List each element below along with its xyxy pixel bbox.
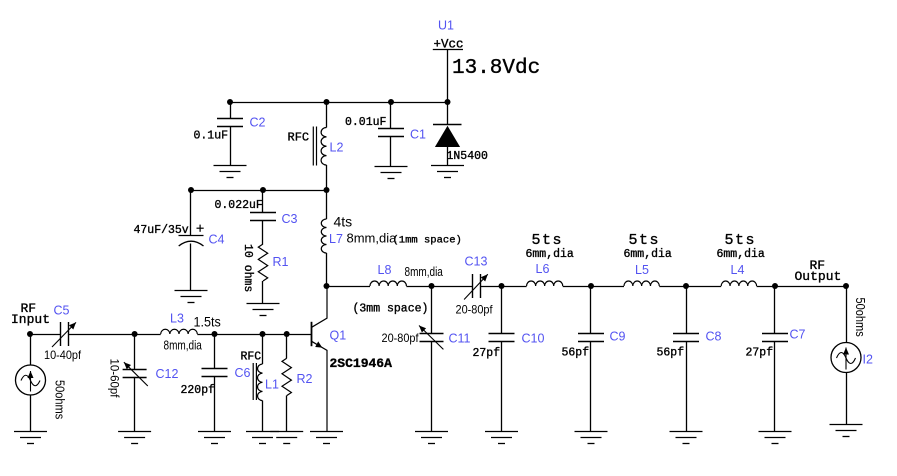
diode D1 cathode bar — [433, 124, 462, 126]
svg-text:27pf: 27pf — [746, 347, 774, 360]
svg-text:L5: L5 — [635, 263, 649, 277]
svg-text:0.1uF: 0.1uF — [194, 129, 229, 142]
svg-text:6mm,dia: 6mm,dia — [717, 248, 765, 261]
capacitor C8 — [673, 334, 699, 342]
wire L2 stub bottom — [326, 165, 328, 190]
svg-text:L1: L1 — [265, 378, 279, 392]
wire C10 stub bottom — [501, 341, 503, 432]
capacitor C4 curved plate — [179, 241, 204, 246]
wire C1 stub bottom — [390, 137, 392, 166]
wire R2 stub bottom — [286, 396, 288, 432]
svg-text:10 ohms: 10 ohms — [241, 244, 254, 292]
wire R1 stub bottom — [262, 281, 264, 304]
transistor Q1 emitter lead — [312, 341, 327, 431]
svg-text:C5: C5 — [54, 304, 70, 318]
svg-text:6mm,dia: 6mm,dia — [624, 248, 672, 261]
ground below C10 — [485, 432, 518, 444]
wire Vcc stub — [447, 49, 449, 102]
svg-text:13.8Vdc: 13.8Vdc — [452, 57, 540, 80]
ground below C7 — [759, 432, 792, 444]
wire C3 to R1 — [262, 221, 264, 244]
wire C7 stub top — [774, 286, 776, 334]
power symbol +Vcc bar — [433, 49, 463, 51]
svg-text:RFC: RFC — [288, 131, 310, 145]
svg-text:(1mm space): (1mm space) — [393, 235, 462, 247]
svg-text:C8: C8 — [706, 329, 722, 343]
source I1 sine — [21, 375, 40, 386]
wire C2 stub bottom — [230, 126, 232, 165]
junction collector rail / C9 — [588, 283, 594, 289]
svg-text:C7: C7 — [790, 328, 806, 342]
capacitor C12 arrow — [124, 362, 148, 386]
inductor L8 — [370, 281, 406, 286]
ground below C2 — [214, 166, 247, 178]
capacitor C7 — [762, 334, 788, 342]
svg-text:C2: C2 — [250, 115, 266, 129]
capacitor C5 variable — [61, 322, 69, 346]
svg-text:1N5400: 1N5400 — [447, 150, 489, 163]
ground below C9 — [575, 432, 608, 444]
wire C7 stub bottom — [774, 341, 776, 432]
wire C8 stub top — [686, 286, 688, 334]
inductor L4 — [721, 281, 756, 286]
junction decoupling rail / C4 — [188, 187, 194, 193]
svg-text:2SC1946A: 2SC1946A — [330, 356, 393, 371]
svg-text:56pf: 56pf — [562, 347, 590, 360]
wire C11 stub top — [431, 286, 433, 333]
junction top rail / C2 — [227, 99, 233, 105]
junction collector rail / C7 — [772, 283, 778, 289]
svg-text:220pf: 220pf — [181, 384, 216, 397]
junction decoupling rail / C3 — [260, 187, 266, 193]
svg-text:50ohms: 50ohms — [853, 298, 868, 337]
capacitor C10 — [489, 334, 515, 342]
ground below input source — [14, 432, 47, 444]
svg-text:6mm,dia: 6mm,dia — [526, 248, 574, 261]
svg-text:RFC: RFC — [241, 351, 262, 364]
svg-text:C1: C1 — [410, 127, 426, 141]
ground below I2 — [830, 425, 863, 437]
junction top rail / C1 — [388, 99, 394, 105]
wire C9 stub top — [590, 286, 592, 334]
capacitor C12 variable — [123, 370, 147, 378]
svg-text:50ohms: 50ohms — [52, 380, 67, 419]
wire D1 stub bottom — [447, 147, 449, 166]
wire L1 stub bottom — [262, 401, 264, 432]
source I2 circle — [831, 343, 861, 373]
junction input rail / R2 — [284, 331, 290, 337]
capacitor C11 arrow — [419, 326, 443, 350]
inductor L3 — [161, 329, 198, 334]
wire C1 stub top — [390, 102, 392, 129]
svg-text:8mm,dia: 8mm,dia — [405, 265, 444, 280]
wire decoupling rail — [191, 190, 327, 192]
ground below C11 — [415, 432, 448, 444]
junction collector rail / RF output — [843, 283, 849, 289]
ground below C6 — [198, 432, 231, 444]
ground below C4 — [175, 291, 208, 303]
capacitor C13 arrow — [464, 274, 488, 299]
wire C10 stub top — [501, 286, 503, 334]
junction collector rail / Q1 — [324, 283, 330, 289]
svg-text:C9: C9 — [610, 329, 626, 343]
svg-text:L8: L8 — [378, 263, 392, 277]
capacitor C1 — [378, 129, 404, 137]
wire L7 stub bottom — [326, 253, 328, 286]
svg-text:1.5ts: 1.5ts — [194, 314, 222, 330]
wire L3 to C6 node — [197, 334, 214, 336]
junction input rail / C12 — [132, 331, 138, 337]
wire L4 to output node — [757, 286, 846, 288]
junction collector rail / C8 — [683, 283, 689, 289]
wire input node to C5 — [30, 334, 60, 336]
svg-text:R1: R1 — [273, 255, 289, 269]
capacitor C3 — [250, 213, 276, 221]
wire C4 stub top — [190, 190, 192, 236]
wire C13 to L6 — [481, 286, 527, 288]
wire C6 stub bottom — [214, 377, 216, 432]
capacitor C2 — [217, 119, 243, 127]
svg-text:56pf: 56pf — [657, 347, 685, 360]
ground below C8 — [670, 432, 703, 444]
svg-text:5ts: 5ts — [629, 232, 661, 249]
source I1 circle — [16, 365, 46, 395]
junction input rail / L1 — [260, 331, 266, 337]
capacitor C11 variable — [420, 334, 444, 342]
junction input rail / source — [27, 331, 33, 337]
svg-text:10-40pf: 10-40pf — [44, 350, 82, 362]
capacitor C4 positive plate — [179, 235, 204, 237]
wire C2 stub top — [230, 102, 232, 119]
svg-text:L2: L2 — [330, 140, 344, 154]
wire input source stub bottom — [30, 395, 32, 432]
wire input source stub top — [30, 334, 32, 366]
svg-text:U1: U1 — [438, 19, 454, 33]
capacitor C13 variable — [473, 274, 481, 298]
svg-text:Output: Output — [795, 269, 842, 284]
diode D1 body — [435, 126, 460, 147]
resistor R1 — [258, 244, 267, 281]
inductor L1 core lines — [253, 363, 256, 400]
junction top rail / Vcc and D1 — [445, 99, 451, 105]
wire C4 stub bottom — [190, 244, 192, 291]
capacitor C5 arrow — [52, 322, 76, 347]
svg-text:8mm,dia: 8mm,dia — [347, 230, 398, 245]
junction top rail / L2 — [324, 99, 330, 105]
svg-text:Input: Input — [11, 312, 50, 327]
wire R2 stub top — [286, 334, 288, 358]
svg-text:8mm,dia: 8mm,dia — [164, 338, 203, 353]
transistor Q1 base bar — [311, 322, 313, 346]
ground below C12 — [118, 432, 151, 444]
svg-text:C6: C6 — [235, 366, 251, 380]
wire top supply rail — [230, 102, 448, 104]
svg-text:L3: L3 — [170, 312, 184, 326]
transistor Q1 collector lead — [312, 286, 327, 327]
source I1 arrow — [30, 371, 32, 392]
svg-text:C4: C4 — [209, 232, 225, 246]
junction L2 / L7 — [324, 187, 330, 193]
svg-text:I2: I2 — [863, 352, 873, 366]
svg-text:27pf: 27pf — [473, 347, 501, 360]
svg-text:0.01uF: 0.01uF — [345, 116, 387, 129]
svg-text:5ts: 5ts — [532, 232, 564, 249]
svg-text:(3mm space): (3mm space) — [353, 303, 429, 316]
wire L2 stub top — [326, 102, 328, 128]
wire L6 to L5 — [563, 286, 624, 288]
svg-text:20-80pf: 20-80pf — [382, 333, 420, 345]
svg-text:C13: C13 — [465, 255, 488, 269]
wire C12 stub top — [134, 334, 136, 369]
wire L8 to C13 — [406, 286, 472, 288]
svg-text:L7: L7 — [329, 232, 343, 246]
inductor L2 coil — [321, 128, 326, 166]
inductor L5 — [624, 281, 659, 286]
junction collector rail / C11 — [429, 283, 435, 289]
ground below C1 — [375, 167, 408, 179]
capacitor C4 plus sign — [197, 225, 204, 232]
junction collector rail / C10 — [499, 283, 505, 289]
wire C8 stub bottom — [686, 341, 688, 432]
wire C9 stub bottom — [590, 341, 592, 432]
transistor Q1 emitter arrow — [315, 341, 322, 347]
wire C3 stub top — [262, 190, 264, 213]
svg-text:C3: C3 — [282, 212, 298, 226]
wire I2 stub bottom — [846, 373, 848, 425]
wire C12 stub bottom — [134, 377, 136, 432]
source I2 sine — [837, 353, 856, 364]
inductor L2 core lines — [313, 127, 316, 166]
ground below R1 — [247, 304, 280, 316]
wire I2 stub top — [846, 286, 848, 343]
ground below D1 — [431, 166, 464, 178]
wire L7 stub top — [326, 190, 328, 219]
ground below L1 — [246, 432, 279, 444]
svg-text:C12: C12 — [156, 367, 179, 381]
inductor L7 coil — [321, 219, 326, 253]
svg-text:L4: L4 — [731, 263, 745, 277]
source I2 arrow — [845, 348, 847, 370]
junction input rail / C6 — [212, 331, 218, 337]
inductor L1 coil — [258, 364, 263, 401]
capacitor C9 — [578, 334, 604, 342]
wire C5 to C12 node — [69, 334, 161, 336]
inductor L6 — [527, 281, 563, 286]
svg-text:0.022uF: 0.022uF — [215, 199, 263, 212]
svg-text:C11: C11 — [449, 331, 471, 345]
wire L5 to L4 — [659, 286, 721, 288]
resistor R2 — [282, 358, 291, 395]
wire C6 node to Q1 base — [215, 334, 312, 336]
svg-text:10-60pf: 10-60pf — [108, 359, 120, 399]
svg-text:4ts: 4ts — [334, 214, 353, 230]
svg-text:20-80pf: 20-80pf — [456, 304, 494, 316]
wire C11 stub bottom — [431, 341, 433, 432]
wire C6 stub top — [214, 334, 216, 369]
svg-text:C10: C10 — [522, 331, 545, 345]
wire collector node to L8 — [327, 286, 371, 288]
capacitor C6 — [202, 369, 228, 377]
wire D1 stub top — [447, 102, 449, 124]
svg-text:Q1: Q1 — [330, 329, 347, 343]
ground below Q1 emitter — [310, 432, 343, 444]
svg-text:R2: R2 — [297, 372, 313, 386]
svg-text:L6: L6 — [536, 262, 550, 276]
ground below R2 — [270, 432, 303, 444]
wire L1 stub top — [262, 334, 264, 364]
svg-text:5ts: 5ts — [725, 232, 757, 249]
svg-text:47uF/35v: 47uF/35v — [134, 224, 189, 237]
